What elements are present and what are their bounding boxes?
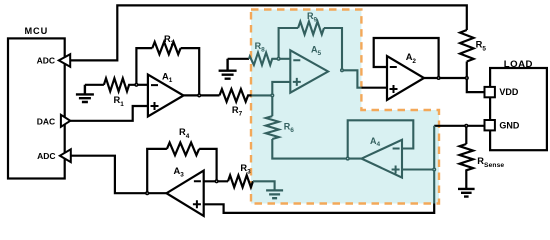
wire R7 to R6 node (inside box) — [252, 94, 273, 96]
pin ADC (bottom) — [37, 149, 71, 162]
wire R8 node to A5 minus — [279, 58, 291, 60]
svg-text:MCU: MCU — [24, 26, 48, 36]
wire ADC1 to top rail — [70, 5, 467, 60]
wire A3 output to ADC2 — [71, 156, 167, 194]
ground at R8 input — [219, 59, 237, 79]
MCU block — [8, 26, 65, 178]
op-amp A3 (left-pointing) — [167, 166, 204, 216]
wire A3 minus to R3 — [204, 180, 228, 182]
node A5 output — [341, 69, 344, 72]
node A2 output feedback — [437, 77, 440, 80]
svg-text:R4: R4 — [179, 127, 190, 140]
wire A3 feedback right leg — [199, 149, 217, 181]
pin VDD square — [485, 87, 519, 98]
op-amp A4 (left-pointing, teal) — [362, 136, 403, 178]
wire A1 feedback right leg — [181, 48, 200, 95]
op-amp A2 — [387, 52, 424, 100]
wire R3 to ground (inside box) — [253, 181, 275, 190]
node A3 minus — [215, 180, 218, 183]
resistor R9 — [298, 22, 324, 35]
resistor R7 — [220, 89, 252, 102]
resistor R8 — [249, 53, 279, 65]
wire R1 junction to A1 minus — [136, 84, 148, 86]
svg-text:A3: A3 — [174, 166, 185, 179]
op-amp A5 (teal) — [290, 45, 328, 93]
wire A4 plus input — [402, 168, 434, 170]
wire A5 plus input — [272, 82, 290, 96]
node R7/R6/A5+ — [271, 94, 274, 97]
svg-text:R3: R3 — [240, 163, 251, 176]
resistor R1 — [85, 78, 136, 91]
wire A3 feedback left leg — [147, 149, 167, 193]
wire A2 output to VDD node — [424, 78, 485, 92]
svg-text:R7: R7 — [232, 105, 243, 118]
svg-text:R5: R5 — [476, 40, 487, 53]
svg-text:A2: A2 — [406, 52, 417, 65]
resistor R6 — [266, 95, 279, 139]
resistor R3 — [228, 175, 253, 187]
pin DAC — [37, 115, 71, 127]
svg-text:LOAD: LOAD — [504, 59, 533, 70]
svg-text:ADC: ADC — [37, 55, 55, 65]
wire DAC to A1 plus — [70, 106, 148, 121]
resistor R2 — [152, 42, 180, 54]
svg-text:RSense: RSense — [477, 156, 504, 169]
node R1/R2/A1- — [135, 84, 138, 87]
pin GND square — [485, 120, 520, 130]
wire R6 bottom to A4 output — [272, 139, 361, 159]
wire GND pin to sense node — [434, 125, 484, 127]
wire A5 feedback right leg — [324, 28, 342, 70]
op-amp A1 — [148, 71, 184, 116]
node A1 output — [198, 94, 201, 97]
node A4 output — [346, 157, 349, 160]
wire A2 feedback loop — [374, 38, 439, 78]
wire A1 output — [184, 94, 220, 96]
svg-text:R1: R1 — [114, 95, 125, 108]
wire A1 feedback left leg — [136, 48, 152, 85]
wire ground to R8 — [228, 58, 249, 60]
node A3 output — [146, 192, 149, 195]
ground below R_Sense — [458, 189, 475, 197]
node R8/R9/A5- — [277, 58, 280, 61]
highlighted analog section (cyan region with dashed border) — [251, 10, 439, 204]
junction nodes (teal) — [271, 58, 436, 171]
pin ADC (top) — [37, 54, 71, 67]
LOAD block — [490, 59, 547, 150]
node R_Sense top — [465, 125, 468, 128]
wire A5 feedback left leg — [279, 28, 299, 59]
svg-text:A1: A1 — [162, 71, 173, 84]
wire A4 feedback loop — [348, 120, 414, 158]
ground at R1 — [76, 85, 94, 102]
resistor R_Sense — [460, 126, 474, 189]
wire A3 plus to bottom rail — [204, 204, 435, 213]
node R5/VDD — [466, 77, 469, 80]
svg-text:VDD: VDD — [499, 87, 519, 97]
wire A4 plus node to GND rail — [433, 126, 435, 204]
wire R5 to VDD node — [466, 62, 468, 78]
node A4 plus — [433, 168, 436, 171]
junction nodes (black) — [135, 77, 468, 195]
svg-text:GND: GND — [499, 120, 520, 130]
wire A2 plus input (black part) — [361, 87, 387, 89]
resistor R4 — [167, 143, 199, 156]
wire A5 output to A2 (teal part) — [342, 70, 361, 87]
resistor R5 — [460, 30, 474, 62]
svg-text:ADC: ADC — [37, 151, 55, 161]
svg-text:DAC: DAC — [37, 117, 55, 127]
ground at R3 (teal) — [266, 190, 283, 198]
